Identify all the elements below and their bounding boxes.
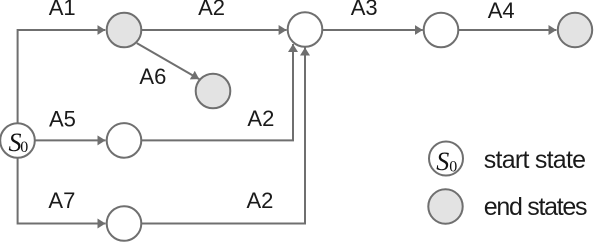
- svg-text:A6: A6: [139, 64, 166, 89]
- svg-text:A2: A2: [247, 188, 274, 213]
- svg-text:A5: A5: [49, 106, 76, 131]
- svg-text:A1: A1: [49, 0, 76, 20]
- svg-text:end states: end states: [484, 193, 587, 221]
- svg-text:0: 0: [20, 139, 28, 156]
- svg-text:A2: A2: [247, 106, 274, 131]
- svg-text:S: S: [436, 147, 449, 176]
- svg-text:A4: A4: [488, 0, 515, 23]
- svg-text:0: 0: [449, 158, 457, 175]
- svg-text:A2: A2: [198, 0, 225, 20]
- svg-text:A7: A7: [48, 188, 75, 213]
- svg-text:A3: A3: [351, 0, 378, 20]
- svg-text:start state: start state: [484, 146, 586, 174]
